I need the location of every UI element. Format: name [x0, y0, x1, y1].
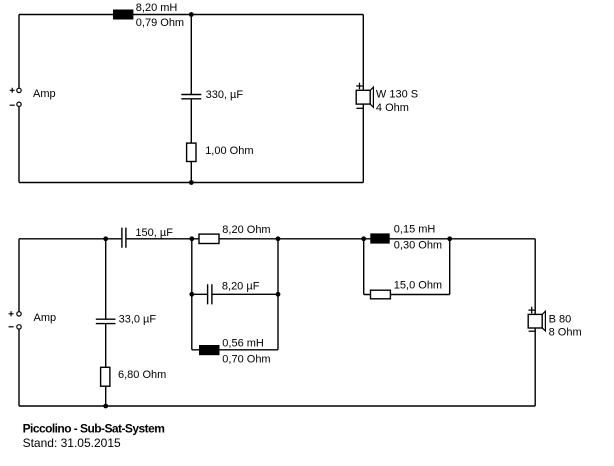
svg-text:B 80: B 80 — [549, 314, 572, 326]
svg-text:330, µF: 330, µF — [206, 89, 244, 101]
svg-text:Stand: 31.05.2015: Stand: 31.05.2015 — [23, 436, 121, 450]
svg-text:0,30 Ohm: 0,30 Ohm — [394, 240, 442, 252]
svg-text:8,20 µF: 8,20 µF — [222, 281, 260, 293]
svg-text:33,0 µF: 33,0 µF — [119, 313, 157, 325]
svg-text:4 Ohm: 4 Ohm — [376, 102, 409, 114]
svg-text:0,56 mH: 0,56 mH — [222, 337, 264, 349]
svg-text:0,79 Ohm: 0,79 Ohm — [136, 17, 184, 29]
svg-text:8,20 mH: 8,20 mH — [136, 2, 178, 14]
svg-text:Amp: Amp — [34, 312, 57, 324]
svg-text:8 Ohm: 8 Ohm — [549, 327, 582, 339]
svg-text:Amp: Amp — [33, 88, 56, 100]
svg-text:Piccolino - Sub-Sat-System: Piccolino - Sub-Sat-System — [23, 422, 165, 436]
svg-text:150, µF: 150, µF — [135, 227, 173, 239]
svg-text:15,0 Ohm: 15,0 Ohm — [394, 280, 442, 292]
svg-text:6,80 Ohm: 6,80 Ohm — [118, 369, 166, 381]
svg-text:W 130 S: W 130 S — [376, 89, 418, 101]
svg-text:1,00 Ohm: 1,00 Ohm — [205, 145, 253, 157]
svg-text:0,15 mH: 0,15 mH — [394, 224, 436, 236]
svg-text:0,70 Ohm: 0,70 Ohm — [222, 354, 270, 366]
svg-text:8,20 Ohm: 8,20 Ohm — [222, 224, 270, 236]
